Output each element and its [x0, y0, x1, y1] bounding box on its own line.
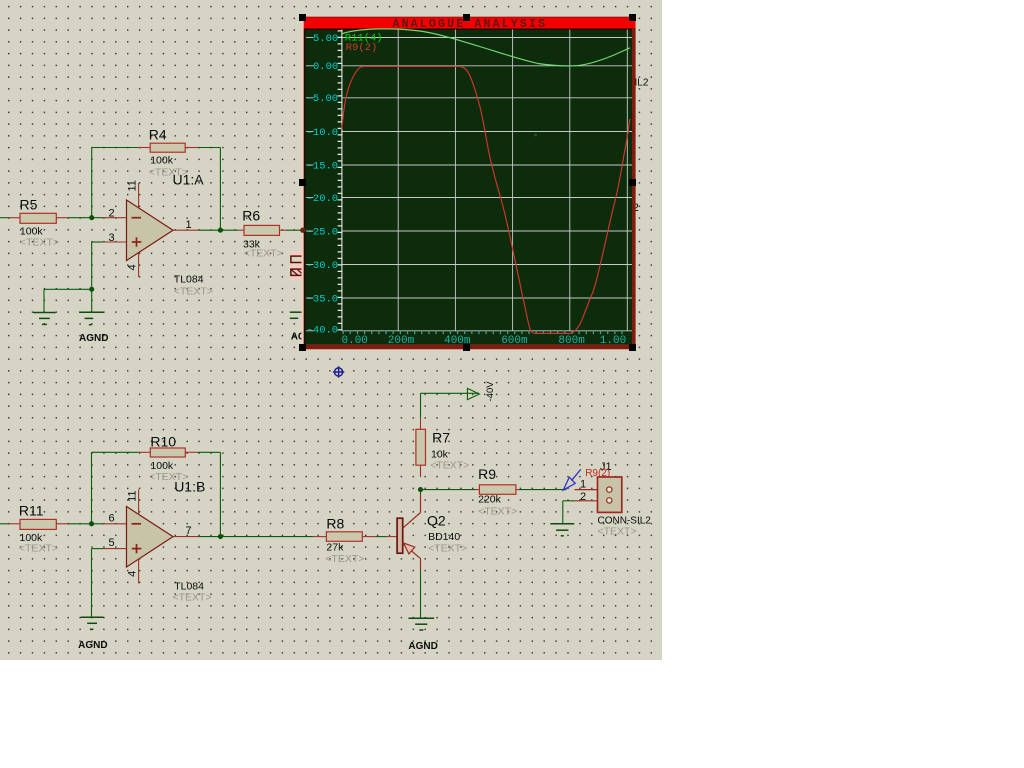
wire input net to R11 [0, 523, 9, 525]
svg-text:-40.0: -40.0 [307, 324, 339, 336]
x gridline 200m [397, 30, 399, 331]
selection handle mid-right [629, 179, 636, 186]
junction ground node [89, 287, 94, 292]
svg-text:11: 11 [127, 180, 139, 191]
svg-text:5: 5 [109, 537, 115, 549]
wire output U1:B to node D [199, 536, 313, 538]
svg-text:U1:A: U1:A [173, 172, 205, 188]
ground symbol 1 [33, 313, 56, 325]
wire emitter down [420, 559, 422, 570]
resistor R7 vertical [416, 418, 426, 478]
svg-text:800m: 800m [558, 335, 585, 347]
wire node A up to feedback [91, 148, 93, 218]
hidden component fragment rect 1 [291, 256, 304, 262]
svg-text:R11: R11 [19, 503, 44, 519]
svg-text:-10.0: -10.0 [307, 127, 339, 139]
resistor R4 [138, 143, 197, 152]
wire feedback top left segment B [92, 451, 139, 453]
schematic sheet background [0, 0, 662, 660]
svg-text:R5: R5 [20, 197, 38, 213]
svg-text:100k: 100k [150, 460, 174, 472]
ground symbol 2 AGND [79, 312, 103, 325]
svg-text:-5.00: -5.00 [307, 93, 339, 105]
svg-text:-35.0: -35.0 [307, 293, 339, 305]
pin 4 stub U1:B [138, 559, 140, 583]
svg-text:TL084: TL084 [174, 274, 204, 286]
svg-text:<TEXT>: <TEXT> [19, 543, 58, 555]
svg-text:<TEXT>: <TEXT> [325, 553, 364, 565]
x gridline 1.00 [626, 30, 628, 331]
svg-text:600m: 600m [501, 335, 528, 347]
svg-text:1: 1 [186, 219, 192, 231]
op-amp U1:B minus sign [132, 523, 142, 525]
x gridline 400m [454, 30, 456, 331]
svg-text:7: 7 [186, 525, 192, 537]
window left bevel dark [304, 29, 306, 344]
svg-text:10k: 10k [431, 448, 449, 460]
svg-text:4: 4 [127, 264, 139, 270]
hidden component fragment rect 2 with hatch [291, 269, 304, 275]
graph window ANALOGUE ANALYSIS [299, 14, 636, 351]
svg-text:-30.0: -30.0 [307, 260, 339, 272]
svg-text:1.00: 1.00 [600, 335, 626, 347]
svg-text:<TEXT>: <TEXT> [174, 286, 213, 298]
wire R11 to node C [68, 523, 103, 525]
svg-text:4: 4 [127, 571, 139, 577]
wire R5 to node A [68, 217, 103, 219]
svg-text:<TEXT>: <TEXT> [430, 460, 469, 472]
pin 11 stub U1:B [138, 489, 140, 514]
svg-text:5.00: 5.00 [313, 33, 338, 45]
selection handle top-middle [463, 14, 470, 21]
wire down to ground 1 [43, 289, 45, 312]
svg-text:<TEXT>: <TEXT> [20, 237, 59, 249]
title bar bottom line [303, 28, 633, 30]
op-amp U1:A body [127, 200, 174, 261]
svg-text:AGND: AGND [78, 640, 107, 651]
wire collector up to node E [420, 494, 422, 513]
resistor R6 [238, 225, 286, 235]
y gridline -40.0 [306, 330, 632, 332]
svg-text:<TEXT>: <TEXT> [598, 526, 637, 538]
pin 11 stub U1:A [138, 183, 140, 208]
wire node C up to feedback [91, 452, 93, 524]
y gridline -5.00 [306, 97, 632, 99]
svg-text:3: 3 [109, 232, 115, 244]
svg-text:AGND: AGND [408, 641, 437, 652]
svg-text:100k: 100k [150, 154, 174, 166]
window left bevel light [302, 17, 304, 349]
svg-text:-40V: -40V [485, 381, 496, 402]
svg-text:2: 2 [109, 208, 115, 220]
ground symbol 3 AGND [81, 617, 104, 629]
svg-text:<TEXT>: <TEXT> [478, 506, 517, 518]
wire R9 to probe point [519, 489, 567, 491]
trace R11(4) green [341, 29, 630, 66]
svg-text:27k: 27k [326, 542, 344, 554]
selection handle top-right [629, 14, 636, 21]
y gridline -15.0 [306, 164, 632, 166]
wire pin5 down to ground 3 [91, 549, 93, 618]
svg-text:BD140: BD140 [428, 531, 460, 543]
wire feedback down to output node [219, 148, 221, 231]
y gridline -35.0 [306, 297, 632, 299]
pin 7 stub output U1:B [173, 536, 199, 538]
selection handle mid-left [299, 179, 306, 186]
pin 3 stub U1:A [103, 241, 127, 243]
y gridline -10.0 [306, 131, 632, 133]
transistor Q2 base stub [386, 536, 397, 538]
selection handle bottom-left [299, 344, 306, 351]
resistor R11 [9, 519, 69, 529]
op-amp U1:A plus sign [132, 237, 142, 246]
voltage probe R9(2) arrow [563, 469, 581, 490]
pin 6 stub U1:B [103, 523, 127, 525]
wire output to node B [199, 229, 238, 231]
wire input net to R5 [0, 217, 9, 219]
wire node E to R9 [421, 489, 476, 491]
ground symbol 5 (J1) [550, 524, 574, 536]
svg-text:AGND: AGND [79, 333, 108, 344]
wire feedback down to output node B [219, 452, 221, 536]
wire pin2 to ground 5 [563, 500, 575, 502]
junction node E [418, 487, 423, 492]
svg-text:200m: 200m [388, 335, 415, 347]
svg-text:-25.0: -25.0 [307, 226, 339, 238]
svg-text:Q2: Q2 [427, 512, 446, 528]
selection handle bottom-middle [463, 344, 470, 351]
x gridline 600m [512, 30, 514, 331]
y gridline 0.00 [306, 65, 632, 67]
svg-text:220k: 220k [478, 493, 502, 505]
wire down to ground 2 [91, 289, 93, 312]
junction node A [89, 215, 94, 220]
connector J1 pin 2 stub [575, 500, 607, 502]
wire feedback top left segment [92, 147, 139, 149]
selection handle top-left [299, 14, 306, 21]
svg-text:R9(2): R9(2) [346, 42, 378, 54]
x axis ticks [343, 331, 629, 334]
hidden ground fragment [290, 312, 304, 318]
svg-text:TL084: TL084 [174, 580, 204, 592]
junction node C [89, 521, 94, 526]
op-amp U1:B body [127, 507, 174, 568]
ground symbol 4 AGND (Q2) [408, 618, 434, 630]
y axis line [341, 30, 343, 331]
window plot background [302, 17, 633, 345]
svg-text:0.00: 0.00 [313, 61, 338, 73]
selection handle bottom-right [629, 344, 636, 351]
wire pin5 horizontal [92, 548, 104, 550]
y gridline -20.0 [306, 197, 632, 199]
svg-text:1: 1 [580, 478, 586, 490]
x gridline 800m [569, 30, 571, 331]
stray green pixel artifact [534, 134, 537, 137]
wire ground node left [44, 288, 92, 290]
svg-text:2: 2 [580, 491, 586, 503]
trace R9(2) red [342, 66, 630, 333]
y gridline -25.0 [306, 230, 632, 232]
resistor R5 [9, 213, 69, 223]
pin 2 stub U1:A [103, 217, 127, 219]
svg-text:-15.0: -15.0 [307, 160, 339, 172]
op-amp U1:B plus sign [132, 544, 142, 553]
power terminal -40V [467, 388, 479, 399]
svg-text:6: 6 [109, 513, 115, 525]
wire R8 to base [376, 536, 387, 538]
resistor R10 [138, 448, 197, 457]
hidden selected component highlight patch [290, 251, 304, 280]
wire R6 to graph edge [286, 229, 304, 231]
svg-text:<TEXT>: <TEXT> [173, 592, 212, 604]
connector J1 pin 1 stub [575, 489, 607, 491]
svg-text:<TEXT>: <TEXT> [244, 248, 283, 260]
wire pin3 horizontal [92, 241, 103, 243]
svg-text:<TEXT>: <TEXT> [428, 542, 467, 554]
resistor R9 [476, 485, 520, 495]
svg-text:R4: R4 [149, 127, 167, 143]
pin 4 stub U1:A [138, 253, 140, 278]
transistor Q2 body BD140 [397, 513, 420, 559]
junction at graph edge [300, 228, 305, 233]
window right border [632, 28, 636, 349]
wire pin3 down to ground node [91, 242, 93, 289]
window title top line [303, 16, 636, 18]
y gridline 5.00 [306, 37, 632, 39]
y axis ticks [338, 30, 342, 331]
junction node B [218, 228, 223, 233]
svg-text:R6: R6 [242, 207, 260, 223]
pin 5 stub U1:B [103, 548, 127, 550]
svg-text:R10: R10 [150, 434, 176, 450]
window title bar [303, 17, 636, 29]
svg-text:IL2: IL2 [635, 78, 649, 89]
resistor R8 [313, 532, 375, 542]
pin 1 stub output U1:A [173, 229, 199, 231]
y gridline -30.0 [306, 264, 632, 266]
window bottom border [302, 345, 636, 350]
wire feedback right segment B [197, 451, 220, 453]
svg-text:11: 11 [127, 490, 139, 501]
junction node D [218, 534, 223, 539]
connector J1 body CONN-SIL2 [598, 477, 622, 512]
wire feedback right segment [197, 147, 220, 149]
svg-text:0.00: 0.00 [342, 335, 368, 347]
svg-text:R7: R7 [432, 429, 450, 445]
svg-text:R9: R9 [478, 466, 496, 482]
svg-text:-20.0: -20.0 [307, 193, 339, 205]
svg-text:R8: R8 [326, 516, 344, 532]
origin marker [333, 366, 344, 377]
svg-text:U1:B: U1:B [174, 479, 205, 495]
wire R7 top to power rail [420, 393, 422, 417]
op-amp U1:A minus sign [132, 217, 142, 219]
